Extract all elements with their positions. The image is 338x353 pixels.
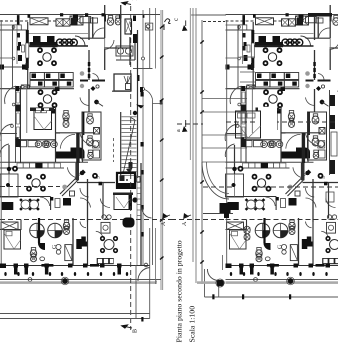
svg-text:Pianta piano secondo in proget: Pianta piano secondo in progetto (175, 240, 184, 342)
svg-text:A: A (182, 221, 188, 226)
svg-text:a: a (176, 129, 182, 132)
svg-text:,: , (156, 278, 157, 283)
svg-text:c: c (172, 18, 180, 21)
svg-text:Scala 1:100: Scala 1:100 (188, 306, 197, 343)
